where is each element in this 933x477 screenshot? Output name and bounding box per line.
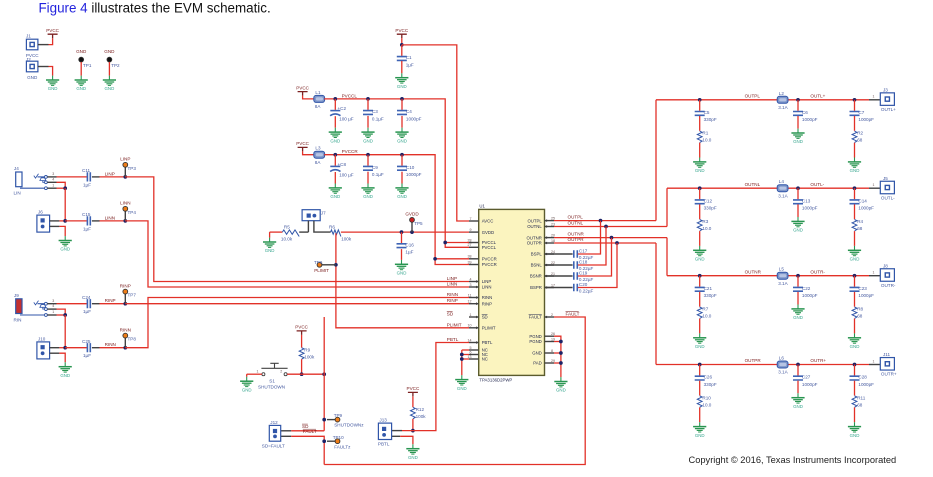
ground at TP2	[103, 76, 116, 92]
capacitor C15	[82, 212, 91, 231]
svg-text:330pF: 330pF	[704, 382, 717, 387]
wire TP6 stem	[322, 264, 336, 266]
wire C3 to ground	[367, 116, 369, 128]
svg-text:TP9: TP9	[334, 413, 343, 418]
inductor L5	[777, 267, 788, 286]
wire C23 to R8	[854, 292, 856, 307]
wire C16 to ground	[401, 249, 403, 260]
svg-text:SHUTDOWNz: SHUTDOWNz	[334, 423, 364, 428]
svg-text:L6: L6	[779, 356, 785, 361]
wire C5 to R1	[699, 116, 701, 131]
power PVCC at J1	[46, 28, 59, 38]
capacitor C13	[793, 188, 818, 210]
ground at R11	[848, 422, 861, 438]
wire GVDD rail to pin 9	[341, 231, 469, 233]
svg-text:RIN: RIN	[14, 317, 22, 322]
svg-text:100k: 100k	[416, 414, 427, 419]
junction FAULT/TP10	[322, 439, 326, 443]
wire OUTPL feed to output row	[655, 100, 657, 221]
svg-text:TP1: TP1	[83, 63, 92, 68]
wire RINP to U1 pin 12	[125, 303, 469, 305]
svg-text:18: 18	[551, 239, 555, 243]
svg-text:10.0: 10.0	[702, 314, 711, 319]
wire R1 to ground	[699, 143, 701, 158]
wire output row OUTNL	[667, 187, 869, 189]
connector J6	[37, 210, 50, 233]
capacitor C5	[695, 100, 717, 122]
svg-text:17: 17	[551, 283, 555, 287]
svg-text:Figure 4 illustrates the EVM s: Figure 4 illustrates the EVM schematic.	[39, 1, 271, 16]
svg-text:OUTNL: OUTNL	[527, 224, 542, 229]
capacitor C4	[397, 99, 422, 121]
wire C9 to ground	[367, 172, 369, 184]
svg-text:J11: J11	[883, 352, 891, 357]
capacitor C20	[574, 282, 594, 294]
wire C25 to TP8 node	[100, 347, 126, 349]
svg-text:23: 23	[551, 222, 555, 226]
wire C25 stub	[92, 347, 100, 349]
wire S1 to SD net	[287, 373, 324, 375]
test point TP6	[314, 260, 323, 267]
U1 right pins	[527, 216, 555, 365]
inductor L1	[314, 90, 325, 109]
op-amp U1 TPA3136D2PWP body	[479, 204, 545, 383]
svg-text:GND: GND	[60, 373, 70, 378]
svg-text:GND: GND	[104, 49, 115, 54]
junction OUTL+/C7	[853, 98, 857, 102]
svg-text:2: 2	[280, 369, 282, 373]
svg-text:SD: SD	[447, 312, 454, 317]
svg-text:OUTNR: OUTNR	[527, 235, 542, 240]
wire J2 to ground	[49, 67, 53, 76]
svg-text:+C8: +C8	[338, 162, 347, 167]
junction PVCCL pins	[443, 241, 447, 245]
svg-text:C25: C25	[82, 339, 91, 344]
ground at PGND	[554, 377, 567, 393]
svg-text:GVDD: GVDD	[482, 230, 494, 235]
svg-text:26: 26	[551, 332, 555, 336]
wire PVCCL rail to pin 27	[324, 99, 469, 247]
wire R11 to ground	[854, 407, 856, 422]
svg-text:1: 1	[52, 183, 54, 187]
svg-text:PBTL: PBTL	[482, 340, 493, 345]
wire PGND to ground	[554, 336, 561, 377]
capacitor C2 (polarized)	[330, 99, 354, 122]
wire PVCC to L1	[303, 96, 314, 99]
svg-text:AVCC: AVCC	[482, 219, 494, 224]
svg-text:L5: L5	[779, 267, 785, 272]
svg-text:1: 1	[52, 310, 54, 314]
wire J4 sleeve stub	[47, 187, 56, 189]
junction SD/TP9	[322, 418, 326, 422]
wire R8 to ground	[854, 319, 856, 334]
wire C11 stub	[92, 176, 100, 178]
svg-text:OUTPL: OUTPL	[568, 215, 584, 220]
audio jack symbol J4	[20, 174, 47, 190]
wire C1 to ground	[401, 61, 403, 73]
svg-text:1000pF: 1000pF	[406, 116, 422, 121]
svg-text:J8: J8	[883, 263, 888, 268]
wire J13 pin 2 to ground	[400, 436, 413, 444]
wire J10 pin1 stub	[50, 347, 60, 349]
junction PVCCL/C3	[366, 97, 370, 101]
svg-text:14: 14	[468, 338, 472, 342]
wire J9 sleeve	[57, 314, 66, 316]
resistor R4	[852, 219, 863, 231]
wire ground to S1	[247, 373, 262, 375]
svg-text:BSNL: BSNL	[531, 263, 543, 268]
svg-text:R8: R8	[857, 307, 863, 312]
svg-text:39: 39	[468, 260, 472, 264]
wire C4 to ground	[401, 116, 403, 128]
resistor R1	[697, 131, 711, 143]
svg-text:GND: GND	[242, 387, 252, 392]
wire J9 tip stub	[47, 303, 56, 305]
wire OUTNL from U1	[554, 226, 667, 228]
wire J12 pin 2 stub	[281, 435, 292, 437]
wire C27 to ground	[797, 381, 799, 394]
wire PVCCR to pin 38	[435, 258, 469, 260]
svg-text:9: 9	[470, 228, 472, 232]
svg-text:2: 2	[551, 313, 553, 317]
svg-text:8: 8	[551, 349, 553, 353]
svg-text:RINP: RINP	[482, 301, 492, 306]
svg-text:PLIMIT: PLIMIT	[314, 268, 329, 273]
ground at C16	[395, 260, 408, 276]
wire C12 to R3	[699, 204, 701, 219]
svg-text:C26: C26	[704, 375, 713, 380]
wire PVCC to R12	[412, 396, 414, 407]
ground at S1	[240, 377, 253, 393]
wire PLIMIT net	[336, 233, 469, 328]
svg-text:TP4: TP4	[128, 210, 137, 215]
wire J9 ring to sleeve	[57, 309, 66, 315]
svg-text:1000pF: 1000pF	[858, 293, 874, 298]
capacitor C12	[695, 188, 717, 210]
svg-text:C24: C24	[82, 295, 91, 300]
svg-text:28: 28	[468, 238, 472, 242]
svg-text:GND: GND	[793, 315, 803, 320]
wire J10 pin2 stub	[50, 352, 60, 354]
wire TP7 stem	[124, 294, 126, 304]
inductor L2	[777, 91, 788, 110]
ground at R1	[693, 158, 706, 174]
wire J4 sleeve	[57, 187, 66, 189]
wire OUTNR feed to output row	[666, 238, 668, 276]
svg-text:1: 1	[873, 359, 875, 363]
svg-text:100k: 100k	[304, 354, 315, 359]
svg-text:3: 3	[52, 299, 54, 303]
capacitor C8 (polarized)	[330, 155, 354, 178]
inductor L4	[777, 179, 788, 198]
connector J7	[302, 210, 326, 221]
connector J8	[880, 269, 894, 282]
svg-text:SD=FAULT: SD=FAULT	[262, 443, 285, 448]
test point TP8	[120, 327, 137, 341]
svg-text:OUTNR: OUTNR	[745, 269, 762, 274]
wire J7 pin 1 stem	[307, 221, 309, 232]
svg-text:0.22µF: 0.22µF	[579, 289, 594, 294]
wire R5 ground drop	[269, 232, 271, 238]
wire J3 stub	[869, 99, 880, 101]
svg-text:BSPL: BSPL	[531, 252, 543, 257]
power PVCC at R12	[407, 386, 420, 396]
svg-text:OUTPR: OUTPR	[745, 358, 762, 363]
wire J5 stub	[869, 187, 880, 189]
svg-text:GND: GND	[60, 247, 70, 252]
junction OUTR+/C28	[853, 363, 857, 367]
resistor R9	[299, 347, 315, 359]
junction OUTL-/C14	[853, 186, 857, 190]
svg-text:GND: GND	[397, 194, 407, 199]
audio jack symbol J9	[20, 301, 47, 317]
svg-text:GND: GND	[793, 404, 803, 409]
junction PVCCR/C10	[400, 153, 404, 157]
svg-text:GND: GND	[397, 271, 407, 276]
wire TP10 stem	[327, 440, 335, 442]
svg-text:OUTPL: OUTPL	[745, 93, 761, 98]
svg-text:GND: GND	[850, 168, 860, 173]
wire J4 sleeve down to LINN node	[64, 188, 66, 221]
svg-text:4: 4	[52, 304, 54, 308]
svg-text:J1: J1	[26, 34, 31, 39]
svg-text:3.1A: 3.1A	[778, 105, 788, 110]
svg-text:330pF: 330pF	[704, 293, 717, 298]
wire J7 pin 2 to R6	[314, 221, 331, 232]
svg-text:C20: C20	[579, 282, 588, 287]
svg-text:LINP: LINP	[120, 157, 130, 162]
svg-text:GND: GND	[532, 351, 542, 356]
svg-text:C5: C5	[704, 110, 710, 115]
wire TP9 stem	[327, 419, 335, 421]
junction PVCCR/C9	[366, 153, 370, 157]
svg-text:J9: J9	[14, 293, 19, 298]
capacitor C10	[397, 155, 422, 177]
svg-text:GND: GND	[48, 86, 58, 91]
svg-text:GND: GND	[76, 86, 86, 91]
svg-text:R12: R12	[416, 407, 425, 412]
resistor R5	[281, 224, 299, 241]
capacitor C3	[363, 99, 384, 121]
wire R9 to SD node	[301, 359, 303, 374]
svg-text:OUTL-: OUTL-	[810, 182, 824, 187]
svg-text:330pF: 330pF	[704, 117, 717, 122]
ground at C3	[361, 128, 374, 144]
svg-text:1: 1	[257, 369, 259, 373]
wire J9 sleeve down to RINN node	[64, 315, 66, 348]
wire C14 to R4	[854, 204, 856, 219]
svg-text:38: 38	[468, 255, 472, 259]
wire J4 ring stub	[47, 181, 56, 183]
svg-text:GND: GND	[330, 138, 340, 143]
svg-text:22: 22	[551, 261, 555, 265]
svg-text:OUTR-: OUTR-	[810, 269, 825, 274]
capacitor C26	[695, 365, 717, 387]
wire J6 to node	[59, 220, 65, 222]
resistor R8	[852, 307, 863, 319]
wire J1 stub	[38, 44, 49, 46]
wire J11 stub	[869, 364, 880, 366]
wire C11 to TP3 node	[100, 176, 126, 178]
wire TP1 to ground	[80, 62, 82, 76]
connector J9 body	[16, 299, 22, 314]
svg-text:OUTPL: OUTPL	[527, 218, 542, 223]
svg-text:J4: J4	[14, 166, 19, 171]
ground at C2	[329, 128, 342, 144]
svg-text:C3: C3	[372, 109, 378, 114]
wire PBTL net	[402, 343, 469, 431]
wire FAULT from J12	[291, 436, 324, 464]
svg-text:GND: GND	[793, 139, 803, 144]
svg-text:5: 5	[470, 346, 472, 350]
wire R3 to ground	[699, 231, 701, 246]
svg-text:4: 4	[52, 177, 54, 181]
test point TP1	[79, 57, 92, 68]
svg-text:1: 1	[470, 313, 472, 317]
wire C15 stub	[92, 220, 100, 222]
wire C10 to ground	[401, 172, 403, 184]
svg-text:RINN: RINN	[482, 295, 493, 300]
wire C20 left lead	[545, 287, 573, 289]
capacitor C9	[363, 155, 384, 177]
svg-text:J12: J12	[270, 420, 278, 425]
wire C22 to ground	[797, 292, 799, 305]
wire C17 left lead	[545, 253, 573, 255]
svg-text:100k: 100k	[341, 237, 352, 242]
svg-text:GND: GND	[695, 257, 705, 262]
wire C19 left lead	[545, 275, 573, 277]
svg-text:C10: C10	[406, 165, 415, 170]
wire C26 to R10	[699, 381, 701, 396]
wire TP5 stem	[411, 222, 413, 232]
svg-text:3: 3	[470, 283, 472, 287]
junction NC	[460, 353, 464, 357]
svg-text:8A: 8A	[315, 104, 322, 109]
wire C17 to OUTPL	[578, 221, 601, 254]
svg-text:10.0: 10.0	[702, 226, 711, 231]
connector J2	[26, 61, 38, 72]
wire OUTNL feed to output row	[666, 188, 668, 226]
wire R4 to ground	[854, 231, 856, 246]
wire NC to ground	[461, 350, 463, 375]
svg-text:C15: C15	[82, 212, 91, 217]
wire PVCC to R9	[301, 335, 303, 348]
svg-text:OUTL+: OUTL+	[881, 107, 896, 112]
capacitor C21	[695, 276, 717, 298]
svg-text:OUTNR: OUTNR	[568, 232, 585, 237]
svg-text:TP6: TP6	[314, 260, 323, 265]
junction OUTPR/C20	[615, 241, 619, 245]
power PVCC for PVCCL rail	[296, 85, 309, 95]
test point TP3	[120, 157, 136, 171]
wire R10 to ground	[699, 407, 701, 422]
svg-text:1000pF: 1000pF	[858, 206, 874, 211]
svg-text:PVCC: PVCC	[407, 386, 420, 391]
svg-text:330pF: 330pF	[704, 206, 717, 211]
svg-text:OUTNL: OUTNL	[745, 182, 761, 187]
connector J1	[26, 39, 38, 50]
svg-text:PVCC: PVCC	[296, 141, 309, 146]
wire C28 to R11	[854, 381, 856, 396]
ground at C8	[329, 184, 342, 200]
ground at R7	[693, 333, 706, 349]
svg-text:12: 12	[468, 300, 472, 304]
wire J1 to PVCC	[49, 38, 53, 44]
wire C13 to ground	[797, 204, 799, 217]
resistor R7	[697, 307, 711, 319]
junction J4 sleeve node	[63, 186, 67, 190]
svg-text:J10: J10	[38, 336, 46, 341]
capacitor C14	[850, 188, 875, 210]
svg-text:R11: R11	[857, 395, 866, 400]
svg-text:C19: C19	[579, 270, 588, 275]
svg-text:RINN: RINN	[120, 327, 131, 332]
wire S1 ground drop	[246, 374, 248, 377]
svg-text:29: 29	[551, 359, 555, 363]
junction RINN node	[63, 346, 67, 350]
svg-text:RINP: RINP	[120, 283, 131, 288]
wire R7 to ground	[699, 319, 701, 334]
svg-text:3.1A: 3.1A	[778, 370, 788, 375]
svg-text:3: 3	[52, 172, 54, 176]
capacitor C6	[793, 100, 818, 122]
svg-text:4: 4	[470, 277, 472, 281]
wire C20 to OUTPR	[578, 243, 617, 288]
svg-text:RINP: RINP	[447, 298, 458, 303]
svg-text:C28: C28	[858, 375, 867, 380]
wire C15 to TP4 node	[100, 220, 126, 222]
svg-text:1000pF: 1000pF	[406, 172, 422, 177]
resistor R10	[697, 395, 711, 407]
svg-text:R10: R10	[702, 395, 711, 400]
junction PLIMIT/TP6	[334, 263, 338, 267]
wire J6 pin2 stub	[50, 225, 60, 227]
wire J4 tip stub	[47, 176, 56, 178]
svg-text:TP5: TP5	[414, 221, 423, 226]
svg-text:PVCC: PVCC	[395, 28, 408, 33]
svg-text:NC: NC	[482, 357, 488, 362]
svg-text:FAULT: FAULT	[566, 312, 580, 317]
wire output row OUTNR	[667, 275, 869, 277]
svg-text:7: 7	[470, 217, 472, 221]
wire OUTNR from U1	[554, 237, 667, 239]
test point TP9	[334, 413, 343, 422]
svg-text:68: 68	[857, 314, 863, 319]
svg-text:19: 19	[551, 337, 555, 341]
wire TP2 to ground	[108, 62, 110, 76]
wire C8 to ground	[334, 172, 336, 184]
connector J11	[880, 358, 894, 371]
svg-text:GND: GND	[397, 84, 407, 89]
junction PGND	[559, 340, 563, 344]
svg-text:21: 21	[551, 272, 555, 276]
svg-text:C7: C7	[858, 110, 864, 115]
svg-text:C6: C6	[802, 110, 808, 115]
svg-text:OUTR+: OUTR+	[881, 372, 897, 377]
svg-text:1000pF: 1000pF	[802, 293, 818, 298]
junction LINP/TP3	[123, 175, 127, 179]
junction GVDD/TP5	[410, 230, 414, 234]
wire NC pin 6	[462, 354, 469, 356]
junction SD/S1	[322, 372, 326, 376]
svg-text:J5: J5	[883, 176, 888, 181]
svg-text:PBTL: PBTL	[447, 337, 459, 342]
wire J4 tip to C11	[57, 176, 87, 178]
svg-text:27: 27	[468, 243, 472, 247]
wire FAULT net	[324, 317, 585, 465]
resistor R3	[697, 219, 711, 231]
wire PVCC to AVCC pin 7	[402, 45, 469, 221]
